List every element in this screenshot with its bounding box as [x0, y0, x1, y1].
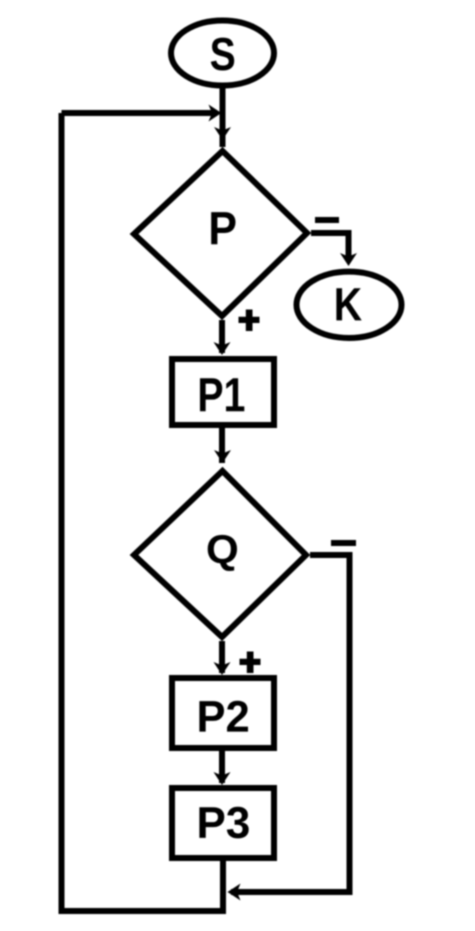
arrowhead into K — [340, 253, 357, 266]
terminal K — [297, 272, 402, 338]
wire P2 to P3 — [219, 751, 225, 783]
terminal S — [171, 21, 274, 86]
decision P — [134, 151, 307, 316]
wire P3 down through node B and loop back left and up — [62, 113, 224, 911]
wire P to K — [311, 233, 349, 260]
arrowhead into P1 — [214, 342, 231, 355]
label plus (P true branch) — [239, 310, 260, 332]
label minus (Q false branch) — [331, 540, 356, 546]
process P2 — [172, 678, 274, 748]
arrowhead into node A — [209, 105, 222, 122]
wire P1 to Q — [219, 428, 225, 463]
process P3 — [172, 788, 274, 858]
wire loop top horizontal — [62, 110, 214, 116]
wire P to P1 — [219, 320, 225, 353]
wire S to node A — [220, 86, 226, 147]
process P1 — [172, 359, 274, 425]
label plus (Q true branch) — [240, 652, 261, 674]
wire Q false branch right and down to merge — [231, 555, 350, 892]
arrowhead into Q — [214, 450, 231, 463]
arrowhead into P — [214, 127, 231, 140]
label minus (P false branch) — [315, 217, 339, 223]
arrowhead into P3 — [214, 772, 231, 785]
wire Q to P2 — [219, 641, 225, 673]
arrowhead into P2 — [214, 662, 231, 675]
decision Q — [134, 471, 306, 637]
arrowhead into merge node B — [228, 884, 241, 901]
